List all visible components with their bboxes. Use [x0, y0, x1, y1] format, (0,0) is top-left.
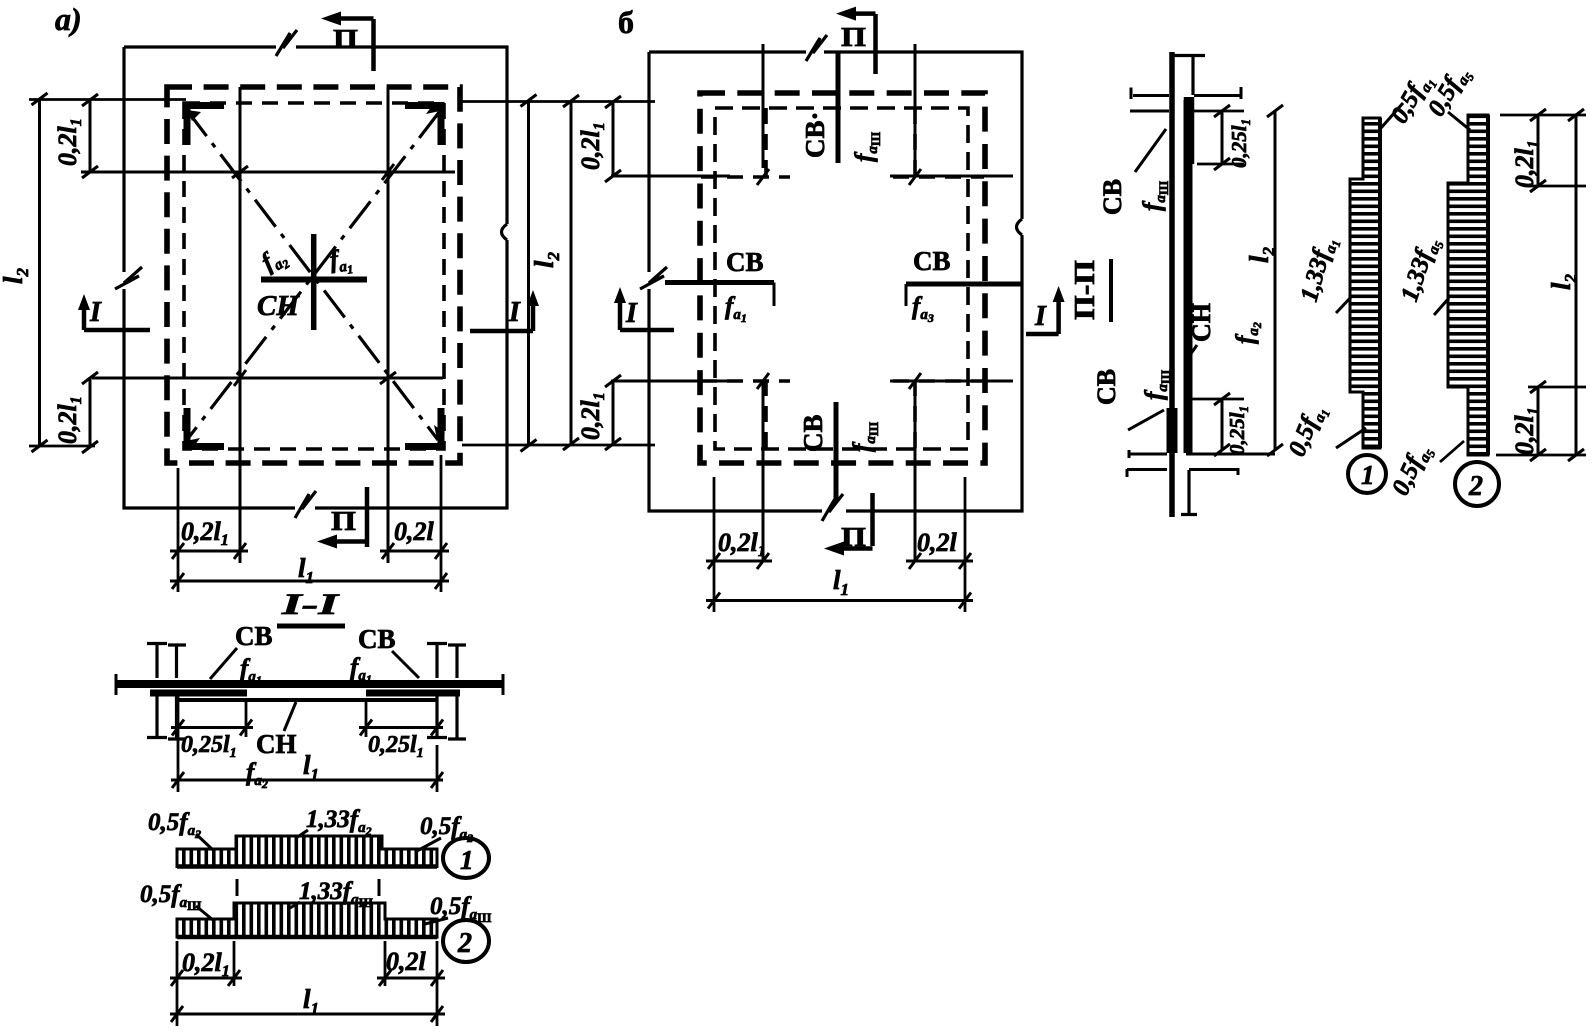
grid thin vertical left (b) [762, 44, 765, 562]
dimension 0.2l2 top-left line (b) [612, 102, 615, 176]
bar mark right (b) [906, 282, 1023, 287]
bar diagram 1 baseline (bottom) [177, 864, 437, 869]
dim 0.25l bottom line (II-II) [1221, 399, 1224, 450]
ext vertical x366 (I-I) [365, 700, 368, 737]
leader 1.33fa (2 bottom) [290, 902, 300, 908]
extension vertical x178 (a) [177, 468, 180, 592]
title II-II underline [1109, 259, 1113, 322]
diagonal tick BL (a) [234, 370, 246, 386]
extension bottom left (a) [29, 445, 95, 448]
grid thin vertical right (b) [914, 44, 917, 562]
corner mark TL (a) [187, 106, 224, 146]
heavy dashed contour (a) [167, 87, 460, 463]
tick top-right (b) [909, 169, 921, 185]
leader CH (II-II) [1190, 345, 1197, 355]
svg-text:0,25l1: 0,25l1 [1225, 406, 1251, 455]
ext vertical x178 (I-I) [177, 690, 180, 792]
center cross vertical (a) [311, 234, 317, 330]
dim 0.2l bottom line (2 right) [1537, 387, 1540, 455]
circled 2 (bottom) [443, 920, 489, 962]
extension vertical x714 (b) [713, 477, 716, 612]
boundary tick right (2 bottom) [378, 879, 381, 896]
dim 0.25l1 left line (I-I) [171, 726, 253, 729]
dim l1 line (I-I) [171, 779, 443, 782]
dimension 0.2l1 bottom-right line (a) [380, 550, 449, 553]
lower continuation line (II-II) [1181, 470, 1197, 515]
inner dashed horizontal bottom-right (b) [893, 379, 984, 383]
diagonal TR-BL (a) [186, 111, 440, 441]
ext bottom (2 right) [1496, 387, 1586, 455]
dimension l2 right line (a) [527, 101, 530, 446]
bar diagram 2 shape (bottom) [177, 903, 437, 937]
ext bottom (II-II) [1190, 398, 1244, 401]
svg-text:2: 2 [457, 928, 472, 959]
svg-text:I: I [508, 297, 521, 328]
dimension l1 bottom line (a) [170, 580, 449, 583]
leader CB top (II-II) [1135, 129, 1166, 172]
leader 0.5fa1 bottom (1 right) [1336, 428, 1366, 448]
circled 2 (right) [1455, 462, 1499, 506]
tick top-left (b) [757, 169, 769, 185]
leader 0.5fa2 right (1 bottom) [415, 838, 441, 852]
svg-text:СВ: СВ [1098, 179, 1127, 215]
inner dashed vertical left-bottom (b) [764, 380, 768, 449]
svg-text:СН: СН [256, 729, 297, 759]
diagonal arrowhead BR (a) [434, 425, 445, 439]
column right (I-I) [427, 644, 466, 740]
dim l2 line (II-II) [1274, 111, 1277, 450]
boundary tick left (2 bottom) [236, 879, 239, 896]
extension top left (a) [29, 98, 186, 101]
section mark II bottom (b) [824, 493, 873, 556]
diagonal tick TR (a) [382, 164, 394, 180]
dim l1 line (bottom) [170, 1013, 445, 1016]
section mark I left (b) [614, 287, 674, 330]
svg-text:0,25l1: 0,25l1 [181, 732, 237, 761]
ext top (2 right) [1500, 115, 1586, 186]
leader 0.5fa1 top (1 right) [1381, 103, 1403, 128]
svg-text:СВ·: СВ· [800, 111, 830, 158]
ext vertical x246 (I-I) [245, 700, 248, 737]
leader CB left (I-I) [210, 648, 237, 679]
dim l2 line (2 right) [1575, 115, 1578, 455]
dim 0.2l left line (bottom) [170, 977, 242, 980]
grid line vertical left (a) [239, 87, 242, 563]
dimension 0.2l1 bottom-right line (b) [906, 560, 973, 563]
diagonal TL-BR (a) [186, 109, 438, 440]
slab end tick right (I-I) [502, 674, 505, 695]
svg-text:СВ: СВ [726, 247, 764, 277]
svg-text:0,2l: 0,2l [394, 517, 435, 546]
svg-text:0,25l1: 0,25l1 [368, 732, 424, 761]
leader 0.5fa2 bottom (2 right) [1440, 441, 1464, 462]
upper continuation line (II-II) [1173, 56, 1205, 96]
bar diagram 1 shape (bottom) [177, 836, 437, 867]
section mark II top (a) [321, 12, 374, 72]
inner dashed vertical right-top (b) [913, 108, 917, 178]
extension vertical x965 (b) [964, 477, 967, 612]
diagonal tick TL (a) [232, 166, 248, 178]
inner dashed horizontal top-right (b) [893, 175, 984, 179]
circled 1 (right) [1348, 455, 1386, 493]
support top (II-II) [1130, 87, 1241, 111]
leader 1.33fa1 (1 right) [1336, 296, 1352, 313]
slab line (II-II) [1169, 52, 1175, 517]
dimension 0.2l1 bottom-left line (a) [170, 550, 248, 553]
dimension 0.2l2 bottom-left line (b) [612, 381, 615, 444]
leader 0.5fa2 top (2 right) [1448, 112, 1470, 130]
svg-text:П: П [841, 522, 866, 552]
extension top left (b) [462, 100, 655, 103]
center cross horizontal (a) [261, 277, 367, 283]
dimension 0.2l1 bottom-left line (b) [706, 560, 772, 563]
corner mark BL (a) [187, 408, 224, 447]
leader 0.5fa2 left (1 bottom) [196, 834, 213, 850]
diagonal arrowhead TR (a) [426, 103, 440, 114]
grid line horizontal bottom (a) [92, 377, 443, 380]
svg-text:СВ: СВ [1092, 369, 1121, 405]
diagonal tick BR (a) [380, 372, 396, 384]
dimension l2 left line (a) [38, 99, 41, 446]
svg-text:СВ: СВ [358, 624, 396, 654]
section mark I right (a) [470, 290, 539, 331]
slab end tick left (I-I) [115, 674, 118, 695]
svg-text:б: б [618, 4, 634, 40]
svg-text:П-П: П-П [1070, 260, 1101, 320]
tick end right mark (b) [905, 284, 908, 306]
bar mark left (b) [665, 280, 774, 285]
bar mark top (b) [836, 51, 841, 163]
bar diagram 1 spine (right) [1378, 118, 1382, 448]
svg-text:1: 1 [1361, 460, 1375, 490]
CH line (II-II) [1184, 100, 1193, 453]
leader 0.5fa right (2 bottom) [425, 918, 448, 924]
svg-text:СВ: СВ [798, 414, 828, 452]
ext vertical x385 (bottom) [384, 941, 387, 986]
dim 0.25l1 right line (I-I) [359, 726, 443, 729]
heavy dashed contour (b) [700, 93, 985, 463]
title I-I underline [277, 624, 345, 629]
tick bottom-right (b) [909, 373, 921, 389]
break zigzag left edge (b) [640, 267, 667, 289]
circled 1 (bottom) [443, 838, 489, 878]
svg-text:I: I [625, 298, 638, 329]
svg-text:I-I: I-I [280, 588, 340, 621]
svg-text:СН: СН [257, 290, 300, 322]
dimension l2 left line (b) [570, 101, 573, 444]
svg-text:П: П [841, 22, 866, 52]
tick bottom-left (b) [757, 373, 769, 389]
ext vertical x437 (bottom) [436, 941, 439, 1026]
break jog right edge (a) [502, 224, 508, 240]
grid line vertical right (a) [387, 87, 390, 563]
break zigzag bottom edge (b) [822, 494, 843, 521]
inner dashed vertical left-top (b) [764, 108, 768, 178]
svg-text:I: I [1034, 301, 1047, 332]
svg-text:П: П [331, 506, 356, 536]
dim 0.2l top line (2 right) [1537, 115, 1540, 186]
tick end left mark (b) [773, 283, 776, 307]
extension bottom left (b) [462, 444, 655, 447]
grid thin horizontal bottom (b) [611, 380, 1013, 383]
bar diagram 2 shape (right) [1448, 115, 1488, 455]
bar diagram 1 shape (right) [1350, 118, 1380, 448]
section mark II top (b) [836, 7, 876, 74]
bar diagram 2 spine (right) [1486, 115, 1490, 455]
svg-text:0,25l1: 0,25l1 [1227, 119, 1253, 168]
corner mark BR (a) [405, 408, 441, 447]
svg-text:0,2l: 0,2l [386, 947, 427, 976]
break zigzag bottom edge (a) [295, 491, 316, 518]
inner dashed vertical right-bottom (b) [913, 380, 917, 449]
leader CH (I-I) [284, 702, 296, 731]
inner dashed contour (b) [715, 108, 968, 449]
outer slab contour (b) [649, 52, 1022, 511]
svg-text:СВ: СВ [235, 621, 273, 651]
ext vertical x234 (bottom) [233, 941, 236, 986]
CH line (I-I) [179, 698, 436, 702]
dimension 0.2l2 bottom-left line (a) [89, 378, 92, 447]
inner dashed contour (a) [184, 103, 444, 449]
grid line horizontal top (a) [81, 171, 455, 174]
break zigzag top edge (b) [806, 35, 827, 61]
dim 0.2l right line (bottom) [377, 977, 445, 980]
bar diagram 2 baseline (bottom) [177, 935, 437, 940]
section mark II bottom (a) [317, 487, 367, 549]
break jog right edge (b) [1017, 219, 1023, 235]
diagonal arrowhead BL (a) [186, 438, 200, 449]
CB bar right (I-I) [366, 690, 460, 697]
svg-text:СН: СН [1187, 303, 1216, 342]
leader 0.5fa left (2 bottom) [196, 906, 213, 920]
CB bar left (I-I) [150, 690, 247, 697]
dim 0.25l top line (II-II) [1221, 111, 1224, 164]
CB bar top (II-II) [1184, 97, 1195, 164]
ext top (II-II) [1190, 111, 1244, 164]
dimension 0.2l2 top-left line (a) [89, 100, 92, 172]
svg-text:2: 2 [1468, 471, 1483, 502]
svg-text:I: I [89, 297, 102, 328]
break zigzag left edge (a) [115, 267, 142, 289]
svg-text:0,2l: 0,2l [917, 528, 958, 557]
bar mark bottom (b) [834, 402, 839, 502]
svg-text:СВ: СВ [913, 246, 951, 276]
leader 1.33fa2 (1 bottom) [296, 830, 308, 838]
inner dashed horizontal top-left (b) [701, 175, 790, 179]
column left (I-I) [147, 644, 186, 740]
leader CB right (I-I) [392, 651, 419, 678]
dimension l1 bottom line (b) [706, 599, 973, 602]
CB bar bottom (II-II) [1167, 408, 1178, 453]
svg-text:а): а) [55, 1, 82, 37]
leader 1.33fa2 (2 right) [1434, 298, 1449, 315]
svg-text:1: 1 [460, 845, 474, 875]
corner mark TR (a) [405, 106, 441, 146]
diagonal arrowhead TL (a) [187, 110, 201, 121]
ext vertical x177 (bottom) [176, 941, 179, 1026]
section mark I right (b) [1026, 286, 1065, 334]
grid thin horizontal top (b) [611, 175, 1013, 178]
outer slab contour (a) [124, 47, 507, 508]
section mark I left (a) [78, 294, 150, 330]
leader CB bottom (II-II) [1128, 410, 1164, 430]
slab line (I-I) [116, 680, 504, 688]
support bottom (II-II) [1127, 450, 1275, 477]
ext vertical x437 (I-I) [436, 745, 439, 792]
svg-text:П: П [333, 24, 358, 54]
extension vertical x441 (a) [440, 455, 443, 592]
break zigzag top edge (a) [276, 30, 297, 56]
inner dashed horizontal bottom-left (b) [701, 379, 790, 383]
